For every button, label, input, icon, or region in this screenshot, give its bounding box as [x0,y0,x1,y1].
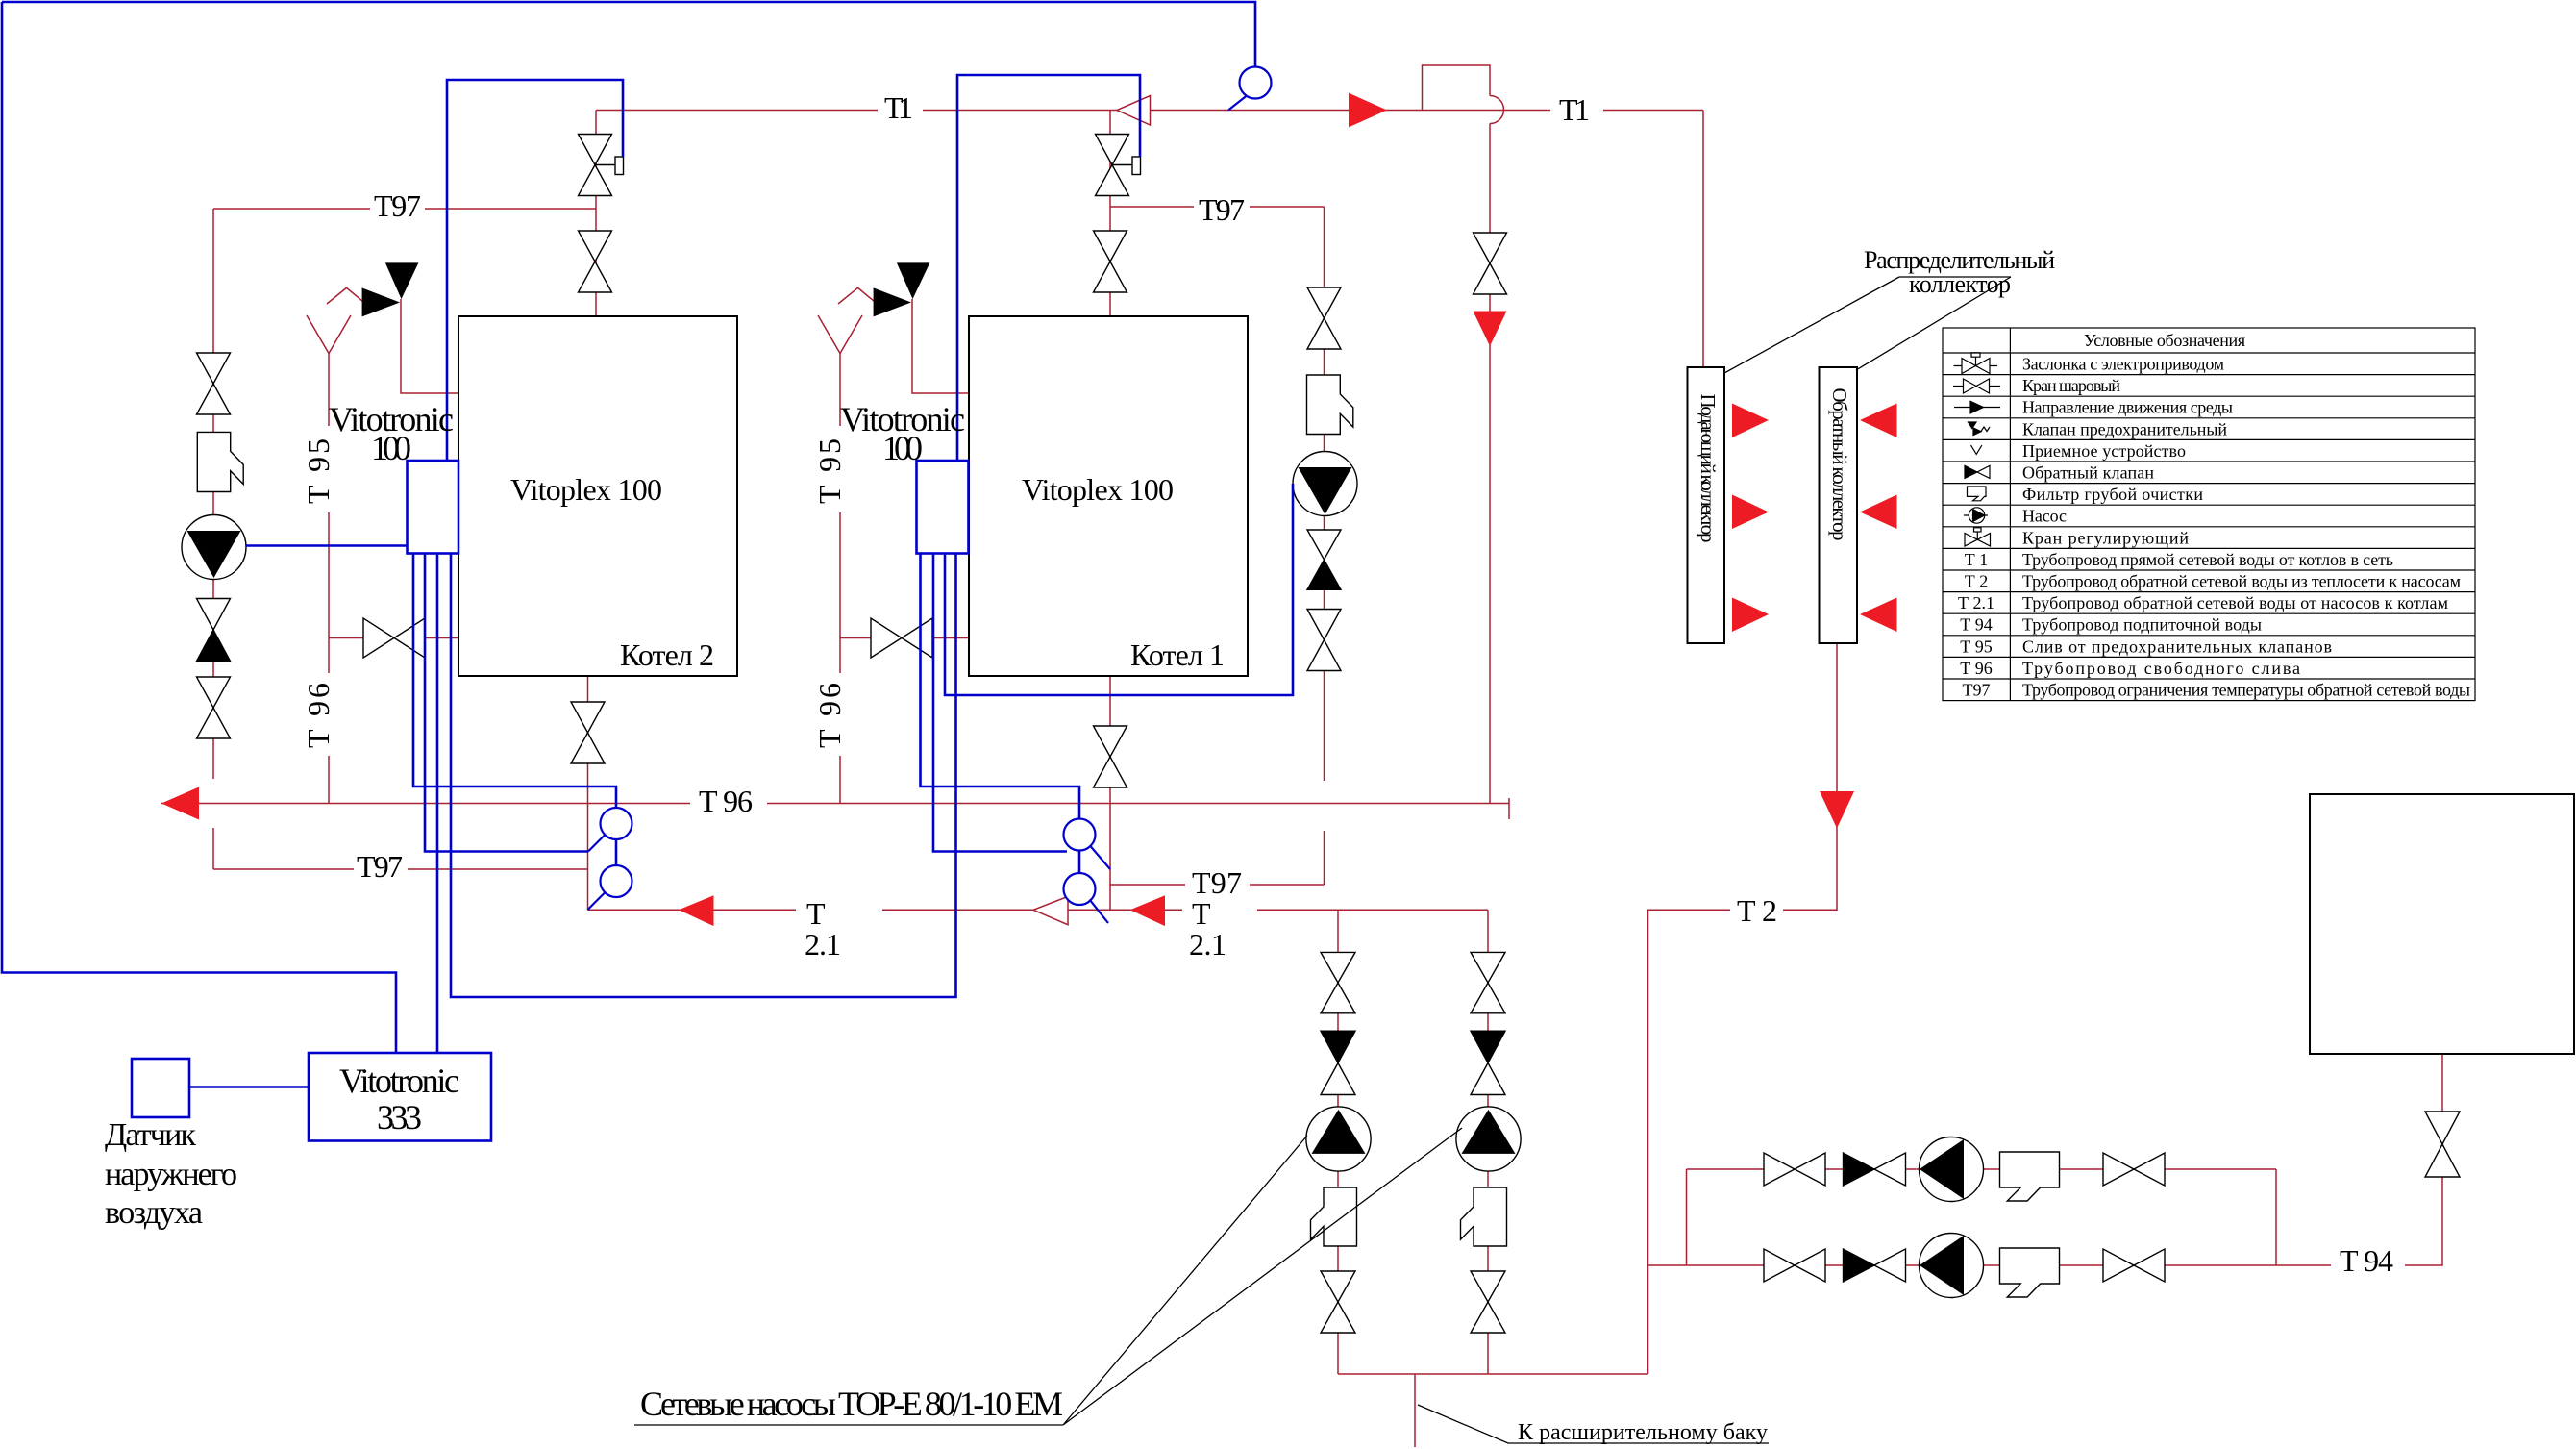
svg-text:Фильтр грубой очистки: Фильтр грубой очистки [2022,485,2203,504]
svg-text:Т 2.1: Т 2.1 [1958,593,1994,612]
svg-text:Направление движения среды: Направление движения среды [2022,398,2233,417]
svg-text:Vitoplex 100: Vitoplex 100 [1022,472,1174,507]
svg-text:Т97: Т97 [1199,192,1245,227]
svg-text:Обратный клапан: Обратный клапан [2022,463,2154,483]
svg-text:Обратный коллектор: Обратный коллектор [1828,388,1851,541]
svg-text:Приемное устройство: Приемное устройство [2022,441,2186,461]
svg-text:Т 96: Т 96 [1960,659,1993,678]
svg-text:Заслонка с электроприводом: Заслонка с электроприводом [2022,355,2224,374]
svg-text:Т: Т [806,896,826,931]
svg-text:К расширительному баку: К расширительному баку [1518,1420,1768,1445]
svg-text:Условные обозначения: Условные обозначения [2084,331,2245,350]
svg-text:Клапан предохранительный: Клапан предохранительный [2022,419,2227,438]
svg-text:Т 1: Т 1 [1965,550,1989,569]
svg-text:Т97: Т97 [357,849,403,884]
svg-text:Т1: Т1 [1559,92,1590,127]
svg-text:Т 94: Т 94 [2340,1243,2393,1278]
svg-text:Т 96: Т 96 [699,784,753,818]
svg-text:100: 100 [882,429,923,467]
svg-text:Т 96: Т 96 [812,683,847,748]
svg-text:Т 95: Т 95 [301,438,335,504]
svg-text:Т 95: Т 95 [1960,637,1993,656]
svg-text:Vitotronic: Vitotronic [339,1062,459,1100]
svg-text:333: 333 [377,1098,422,1137]
svg-text:Т97: Т97 [374,188,421,223]
svg-text:Слив от предохранительных клап: Слив от предохранительных клапанов [2022,637,2332,656]
svg-text:коллектор: коллектор [1909,270,2011,298]
svg-text:Трубопровод подпиточной воды: Трубопровод подпиточной воды [2022,615,2262,635]
svg-text:воздуха: воздуха [105,1195,203,1231]
svg-text:Т 2: Т 2 [1965,572,1989,591]
svg-text:2.1: 2.1 [805,927,841,962]
svg-text:Vitoplex 100: Vitoplex 100 [510,472,662,507]
svg-text:Насос: Насос [2022,507,2067,526]
svg-text:Т1: Т1 [884,90,913,125]
svg-text:Т97: Т97 [1192,865,1242,900]
svg-text:Трубопровод обратной сетевой в: Трубопровод обратной сетевой воды из теп… [2022,572,2461,591]
svg-text:Т 95: Т 95 [812,438,847,504]
svg-text:Т: Т [1192,896,1211,931]
svg-text:Т97: Т97 [1963,681,1991,700]
svg-text:Сетевые насосы ТОР-Е 80/1-10 Е: Сетевые насосы ТОР-Е 80/1-10 ЕМ [640,1385,1063,1423]
svg-text:Т 96: Т 96 [301,683,335,748]
svg-text:Т 2: Т 2 [1737,893,1777,928]
svg-text:Котел 2: Котел 2 [620,637,714,672]
svg-text:Котел 1: Котел 1 [1130,637,1225,672]
svg-text:Датчик: Датчик [105,1117,196,1153]
svg-text:Трубопровод прямой сетевой вод: Трубопровод прямой сетевой воды от котло… [2022,550,2393,569]
svg-text:Трубопровод обратной сетевой в: Трубопровод обратной сетевой воды от нас… [2022,593,2448,612]
svg-text:Т 94: Т 94 [1960,615,1993,635]
svg-text:Кран регулирующий: Кран регулирующий [2022,528,2189,547]
svg-text:100: 100 [371,429,411,467]
svg-text:2.1: 2.1 [1189,927,1226,962]
svg-text:наружнего: наружнего [105,1157,237,1192]
svg-text:Кран шаровый: Кран шаровый [2022,376,2120,395]
svg-text:Трубопровод ограничения темпер: Трубопровод ограничения температуры обра… [2022,681,2470,700]
svg-text:Подающий коллектор: Подающий коллектор [1697,394,1720,543]
